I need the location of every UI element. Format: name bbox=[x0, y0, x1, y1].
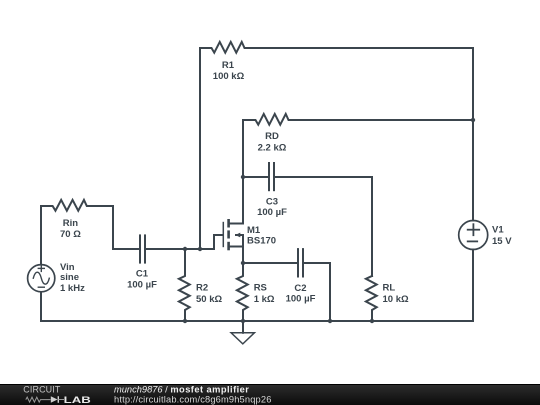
node R2 top junction bbox=[183, 247, 187, 251]
svg-text:http://circuitlab.com/c8g6m9h5: http://circuitlab.com/c8g6m9h5nqp26 bbox=[114, 394, 272, 404]
svg-text:2.2 kΩ: 2.2 kΩ bbox=[258, 142, 287, 153]
footer title text bbox=[114, 385, 272, 405]
capacitor C2 bbox=[243, 248, 330, 321]
svg-text:RD: RD bbox=[265, 131, 279, 142]
svg-text:C1: C1 bbox=[136, 269, 149, 280]
resistor RL bbox=[366, 276, 409, 321]
wire R1 left vertical to gate node bbox=[199, 48, 201, 249]
wire C3 to RL top bbox=[371, 177, 373, 276]
CircuitLab logo bbox=[23, 385, 91, 405]
svg-text:70 Ω: 70 Ω bbox=[60, 229, 81, 240]
resistor R1 bbox=[200, 42, 473, 82]
resistor R2 bbox=[179, 249, 223, 321]
resistor Rin bbox=[41, 200, 113, 240]
node source junction bbox=[241, 261, 245, 265]
svg-text:15 V: 15 V bbox=[492, 236, 512, 247]
svg-text:RS: RS bbox=[254, 283, 267, 294]
svg-text:RL: RL bbox=[383, 283, 396, 294]
svg-text:Rin: Rin bbox=[63, 218, 79, 229]
voltage source Vin bbox=[28, 262, 85, 294]
svg-text:50 kΩ: 50 kΩ bbox=[196, 294, 222, 305]
node RD-V1 junction bbox=[471, 118, 475, 122]
resistor RD bbox=[243, 114, 473, 153]
svg-text:1 kHz: 1 kHz bbox=[60, 283, 85, 294]
wire Rin right vertical bbox=[112, 206, 114, 249]
node RL bottom bbox=[370, 319, 374, 323]
node R2 bottom bbox=[183, 319, 187, 323]
capacitor C3 bbox=[243, 162, 372, 218]
wire Vin bottom lead bbox=[40, 292, 42, 321]
svg-text:1 kΩ: 1 kΩ bbox=[254, 294, 275, 305]
svg-text:10 kΩ: 10 kΩ bbox=[383, 294, 409, 305]
node R1 bottom junction bbox=[198, 247, 202, 251]
wire RD vertical to M1 drain bbox=[230, 120, 243, 224]
wire bottom rail bbox=[41, 320, 473, 322]
ground bbox=[231, 321, 254, 344]
svg-text:M1: M1 bbox=[247, 225, 261, 236]
svg-text:C2: C2 bbox=[294, 283, 306, 294]
svg-text:sine: sine bbox=[60, 272, 79, 283]
resistor RS bbox=[237, 263, 275, 321]
svg-text:100 µF: 100 µF bbox=[257, 207, 287, 218]
svg-text:LAB: LAB bbox=[64, 395, 91, 405]
wire V1 top lead bbox=[472, 48, 474, 221]
svg-text:R2: R2 bbox=[196, 283, 208, 294]
svg-text:V1: V1 bbox=[492, 225, 504, 236]
node C3 tap on drain branch bbox=[241, 175, 245, 179]
wire gate lead bbox=[214, 235, 223, 249]
capacitor C1 bbox=[113, 234, 214, 290]
svg-text:CIRCUIT: CIRCUIT bbox=[23, 385, 60, 395]
voltage source V1 bbox=[459, 221, 513, 250]
wire V1 bottom lead bbox=[472, 250, 474, 322]
node ground junction bbox=[241, 319, 245, 323]
svg-text:100 µF: 100 µF bbox=[127, 279, 157, 290]
svg-text:100 kΩ: 100 kΩ bbox=[213, 71, 245, 82]
transistor M1 bbox=[223, 219, 276, 263]
svg-text:BS170: BS170 bbox=[247, 236, 276, 247]
svg-text:munch9876 / mosfet amplifier: munch9876 / mosfet amplifier bbox=[114, 385, 249, 395]
node C2 bottom bbox=[328, 319, 332, 323]
wire Vin top lead bbox=[40, 206, 42, 264]
svg-text:100 µF: 100 µF bbox=[286, 294, 316, 305]
svg-text:C3: C3 bbox=[266, 196, 278, 207]
svg-text:R1: R1 bbox=[222, 60, 235, 71]
